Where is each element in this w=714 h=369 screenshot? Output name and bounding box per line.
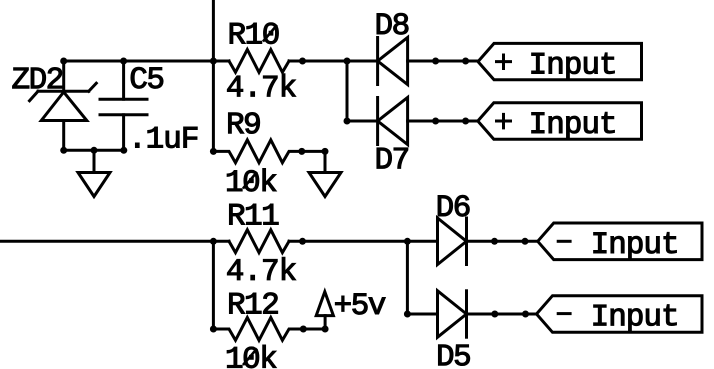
label Input (row 4) xyxy=(594,305,677,332)
junction dots row 2 xyxy=(344,118,351,125)
wire D7 to flag xyxy=(408,120,478,123)
node flag - Input (row 3) xyxy=(538,223,702,260)
label 4.7k (R10) xyxy=(227,74,295,97)
node flag + Input (row 2) xyxy=(478,103,642,139)
wire R10 to D8 xyxy=(289,60,378,63)
wire ZD2/C5 bottom rail xyxy=(64,149,124,152)
label .1uF xyxy=(136,127,198,148)
slashed zero in 10k (R12) xyxy=(243,349,257,366)
wire D5 to flag xyxy=(467,313,537,316)
plus sign (flag row 1) xyxy=(495,54,512,71)
label R9 xyxy=(229,113,260,134)
minus sign (flag row 4) xyxy=(557,312,572,315)
label R11 xyxy=(230,204,279,224)
resistor R11 xyxy=(229,230,289,253)
junction dots R12 row xyxy=(210,326,217,333)
wire D6 to flag xyxy=(467,240,538,243)
label Input (row 2) xyxy=(532,112,615,139)
node flag + Input (row 1) xyxy=(478,43,642,79)
junction dots row 3 xyxy=(210,238,217,245)
diode D7 xyxy=(378,98,408,145)
diode D8 xyxy=(378,38,408,85)
wire R11 to D6 xyxy=(289,240,438,243)
wire bottom rail left xyxy=(0,240,229,243)
plus sign (flag row 2) xyxy=(495,113,512,129)
label C5 xyxy=(131,67,163,88)
label D5 xyxy=(439,345,470,366)
power +5v arrow xyxy=(316,292,333,329)
ground (under R9) xyxy=(309,151,341,196)
wire top rail xyxy=(64,60,229,63)
junction dots ZD2/C5 bottom xyxy=(60,147,67,154)
wire vertical R11-R12 xyxy=(212,241,215,329)
resistor R9 xyxy=(213,140,325,163)
label 10k (R12) xyxy=(227,345,276,368)
wire vertical D6-D5 xyxy=(406,241,409,314)
label D8 xyxy=(377,13,408,34)
resistor R12 xyxy=(213,318,325,341)
junction dots top rail xyxy=(60,58,67,65)
slashed zero in R10 xyxy=(263,25,277,42)
junction dots R9 row xyxy=(210,148,217,155)
wire D8 to flag xyxy=(408,60,478,63)
label D7 xyxy=(377,148,408,168)
label 4.7k (R11) xyxy=(227,257,295,280)
label +5v xyxy=(335,294,385,315)
label D6 xyxy=(438,195,469,216)
wire into D7 xyxy=(347,120,378,123)
slashed zero in 10k (R9) xyxy=(243,172,257,189)
diode D6 xyxy=(438,218,467,265)
wire vertical D8-D7 xyxy=(346,61,349,121)
label Input (row 1) xyxy=(532,53,615,80)
label ZD2 xyxy=(13,68,63,89)
label R12 xyxy=(230,293,278,314)
zener diode ZD2 xyxy=(30,61,97,150)
wire into D5 xyxy=(407,313,437,316)
label Input (row 3) xyxy=(594,232,677,259)
diode D5 xyxy=(438,291,467,337)
label 10k (R9) xyxy=(227,169,276,192)
node flag - Input (row 4) xyxy=(537,296,703,333)
capacitor C5 xyxy=(100,61,147,150)
ground (under ZD2/C5) xyxy=(78,150,110,196)
wire main vertical bus xyxy=(212,0,215,151)
label R10 xyxy=(230,23,278,44)
minus sign (flag row 3) xyxy=(557,240,572,243)
junction dots row 4 xyxy=(404,311,411,318)
resistor R10 xyxy=(229,50,289,73)
